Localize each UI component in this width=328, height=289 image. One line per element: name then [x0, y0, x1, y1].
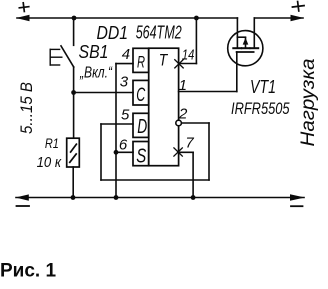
input box D: [133, 113, 149, 137]
minus label bottom-left: [17, 205, 30, 207]
input box S: [133, 142, 149, 166]
plus label top-left: [19, 2, 29, 12]
VT1 gate line: [237, 51, 254, 53]
svg-text:5: 5: [121, 107, 130, 124]
wire pin 14 to supply: [179, 63, 196, 65]
svg-text:7: 7: [185, 135, 194, 152]
wire SB1 bottom terminal: [73, 67, 75, 93]
wire pin 7 to ground: [178, 151, 193, 153]
VT1 drain contact: [250, 47, 258, 49]
svg-text:D: D: [137, 116, 147, 138]
svg-text:3: 3: [120, 74, 129, 91]
svg-text:DD1: DD1: [97, 23, 129, 43]
node junction ground rail S/R: [114, 195, 119, 200]
svg-text:2: 2: [178, 105, 188, 122]
wire pin 1 Q output to gate: [179, 91, 237, 93]
svg-text:Рис. 1: Рис. 1: [0, 261, 56, 282]
wire pin 6 S input: [116, 151, 133, 153]
svg-text:VT1: VT1: [250, 77, 276, 97]
wire node to C input pin 3: [74, 92, 133, 94]
wire top supply rail left section: [17, 17, 237, 19]
svg-text:S: S: [136, 145, 146, 167]
svg-text:1: 1: [179, 77, 187, 94]
wire SB1 top terminal: [73, 18, 75, 45]
IC DD1 flip-flop main box: [133, 48, 179, 166]
transistor VT1 circle: [228, 31, 263, 66]
resistor R1: [67, 138, 80, 167]
wire VT1 gate lead: [236, 52, 238, 92]
svg-text:4: 4: [122, 46, 130, 63]
wire top supply rail right section: [254, 17, 303, 19]
plus label top-right: [292, 1, 305, 12]
terminal arrow bottom-left: [16, 194, 29, 200]
pushbutton SB1 actuator: [50, 49, 62, 65]
wire feedback left vertical: [100, 124, 102, 180]
wire R1 bottom lead: [72, 167, 74, 198]
minus label bottom-right: [291, 205, 303, 207]
inversion bubble pin 2: [176, 120, 182, 126]
terminal arrow bottom-right: [290, 194, 305, 201]
terminal arrow top-right: [291, 15, 305, 21]
terminal arrow top-left: [16, 15, 30, 22]
input box C: [133, 80, 149, 105]
VT1 source lead: [236, 18, 238, 47]
svg-text:T: T: [159, 50, 169, 69]
node junction SB1/R1/pin3: [71, 90, 76, 95]
svg-text:14: 14: [182, 47, 195, 64]
wire pin 4 R input: [116, 63, 133, 65]
svg-text:5...15 В: 5...15 В: [17, 82, 36, 134]
node junction SB1 top: [72, 16, 77, 21]
wire feedback bottom horizontal: [101, 179, 209, 181]
wire pin 2 output to feedback: [182, 122, 210, 124]
input box R: [133, 48, 149, 72]
wire bottom ground rail: [16, 197, 304, 199]
pushbutton SB1 blade: [61, 46, 74, 67]
pin 7 ground cross: [174, 148, 182, 156]
node junction pin14 supply: [194, 16, 199, 21]
node junction pin7 ground rail: [191, 195, 196, 200]
node junction R1 ground: [71, 195, 76, 200]
wire R/S ground vertical: [115, 64, 117, 198]
svg-text:564ТМ2: 564ТМ2: [136, 22, 182, 42]
svg-text:10 к: 10 к: [37, 154, 62, 171]
VT1 source contact: [233, 47, 241, 49]
VT1 drain lead: [253, 18, 255, 47]
VT1 substrate contact: [242, 47, 249, 49]
VT1 substrate tie and arrow: [237, 36, 245, 38]
wire feedback right vertical: [208, 123, 210, 180]
svg-text:SB1: SB1: [79, 42, 109, 62]
svg-text:C: C: [136, 85, 145, 106]
svg-text:IRFR5505: IRFR5505: [231, 99, 290, 118]
node junction pin6/ground vertical: [114, 150, 119, 155]
wire pin 5 D input: [101, 123, 133, 125]
svg-text:6: 6: [119, 137, 128, 154]
svg-text:R1: R1: [45, 135, 59, 151]
wire R1 top lead: [73, 93, 75, 139]
svg-text:R: R: [137, 52, 145, 71]
svg-text:„Вкл.“: „Вкл.“: [79, 65, 113, 82]
svg-text:Нагрузка: Нагрузка: [298, 59, 319, 147]
pin 14 power cross: [175, 60, 183, 68]
